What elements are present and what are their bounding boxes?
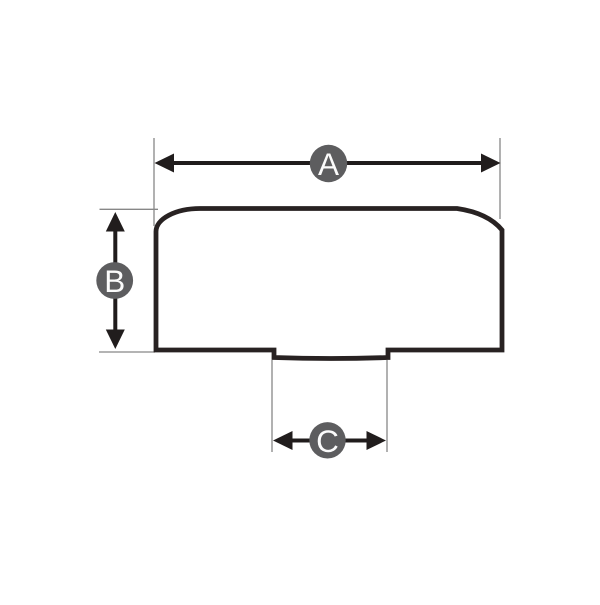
svg-text:B: B [104,263,125,299]
svg-text:C: C [316,423,339,459]
svg-text:A: A [318,146,339,182]
